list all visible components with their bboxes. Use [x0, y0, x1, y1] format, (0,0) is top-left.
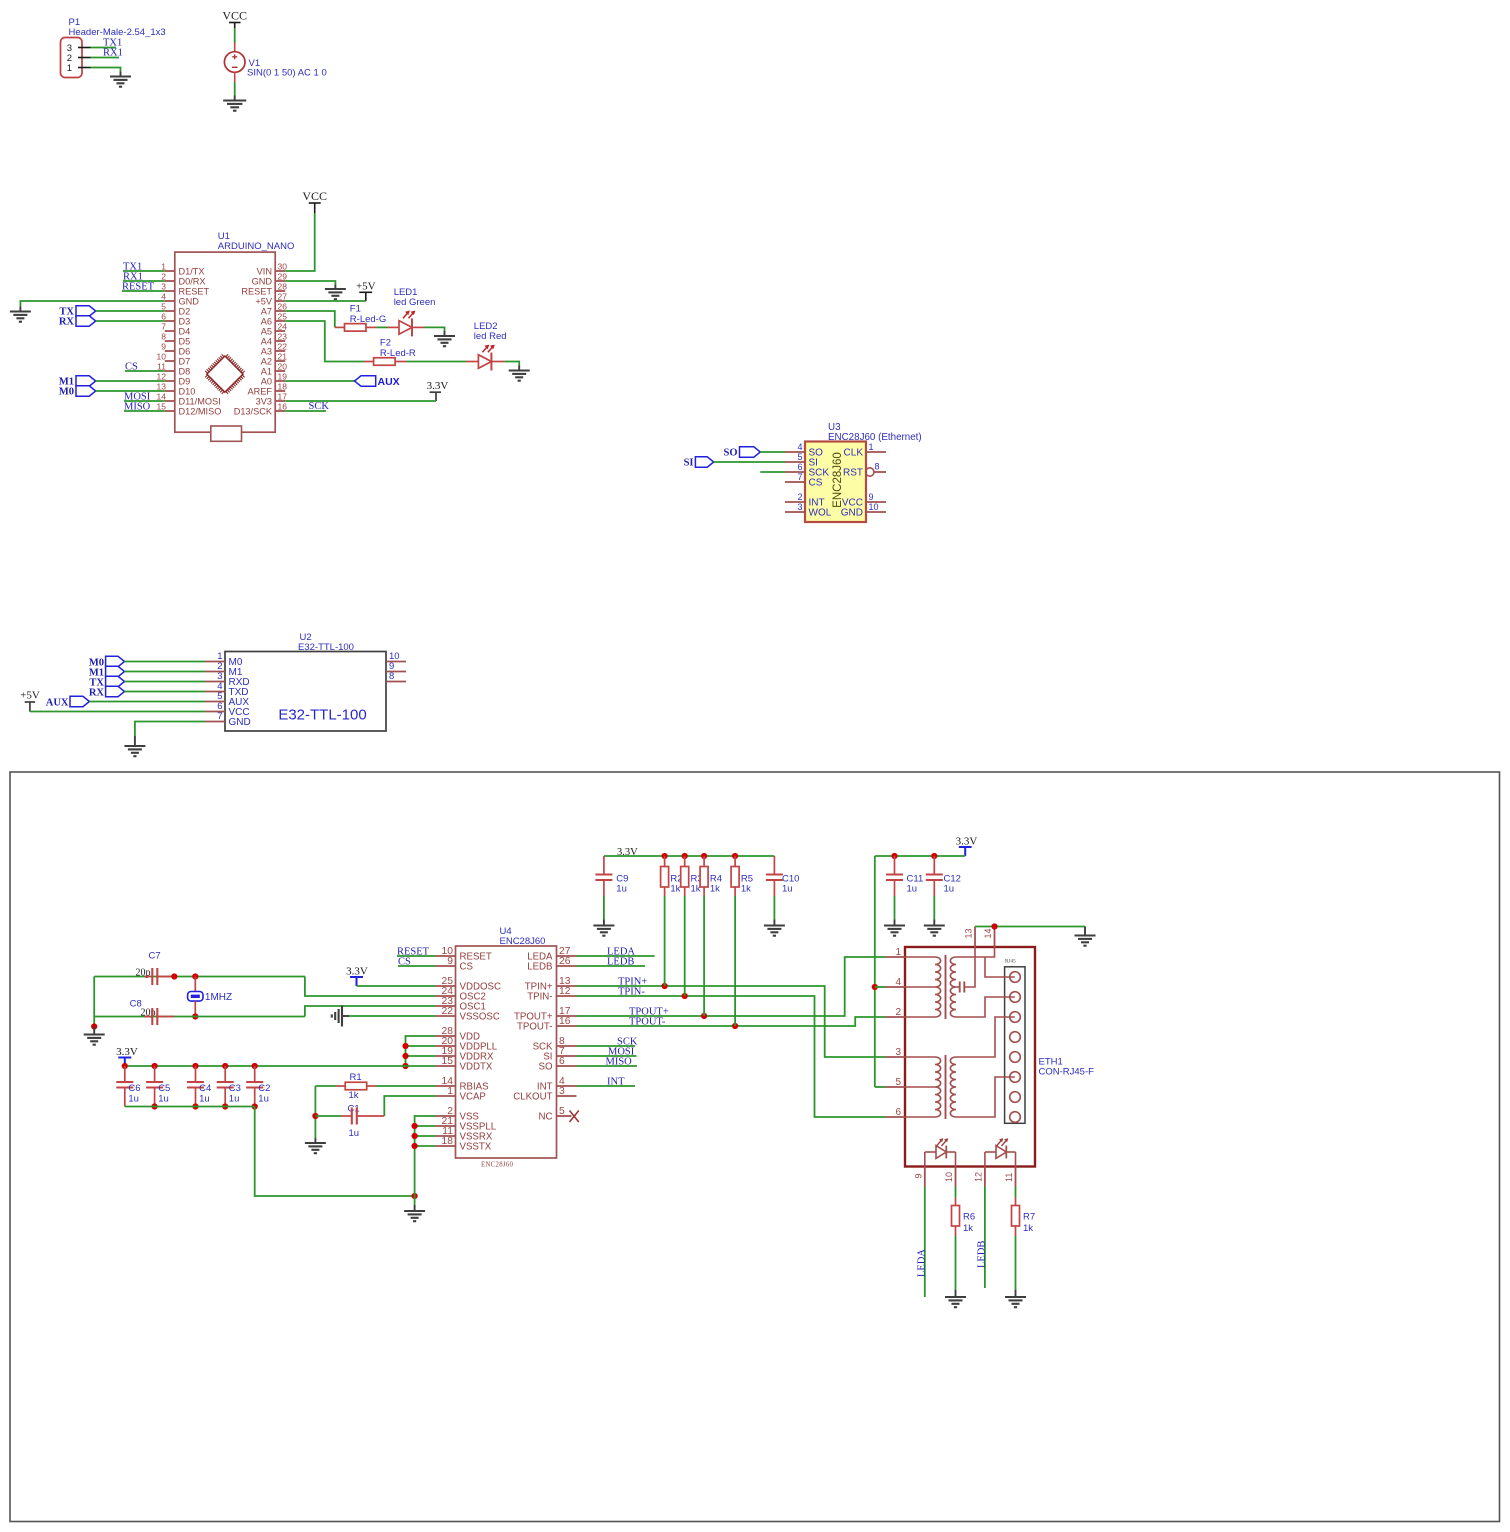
svg-text:16: 16	[278, 401, 288, 411]
U2 pin 3 RXD	[205, 681, 225, 683]
svg-text:D0/RX: D0/RX	[179, 276, 206, 286]
wire left crystal vertical	[93, 977, 95, 1027]
port AUX at U1 pin 19 A0	[285, 380, 354, 382]
U4 pin 21 VSSPLL	[436, 1125, 456, 1127]
svg-text:A3: A3	[261, 346, 272, 356]
wire TPOUT+ to transformer pin 1	[577, 957, 886, 1016]
svg-text:VCC: VCC	[222, 9, 247, 23]
svg-text:SO: SO	[723, 448, 737, 459]
wire F1 to LED1	[376, 326, 387, 328]
resistor R3 1k	[682, 853, 688, 859]
U4 pin 27 LEDA	[557, 955, 577, 957]
svg-text:RESET: RESET	[179, 286, 210, 296]
svg-text:1: 1	[447, 1086, 453, 1097]
junction	[412, 1193, 418, 1199]
U1 pin 21 A2	[275, 360, 285, 362]
svg-text:D10: D10	[179, 386, 196, 396]
U4 pin 17 TPOUT+	[557, 1015, 577, 1017]
U4 pin 9 CS	[436, 965, 456, 967]
svg-text:1k: 1k	[963, 1223, 973, 1234]
transformer T1 core	[945, 955, 947, 1019]
voltage source V1 SIN(0 1 50) AC 1 0	[234, 43, 236, 53]
junction	[701, 1013, 707, 1019]
U3 pin 8 RST with bubble	[866, 468, 874, 476]
wire +5V to U2 VCC	[30, 711, 205, 713]
svg-text:3.3V: 3.3V	[116, 1046, 138, 1058]
U3 pin 1 CLK	[866, 451, 886, 453]
junction	[412, 1133, 418, 1139]
svg-text:10: 10	[157, 351, 167, 361]
wire R2 down	[664, 896, 666, 986]
ETH1 pin 9	[924, 1167, 926, 1187]
junction	[91, 1023, 97, 1029]
svg-text:E32-TTL-100: E32-TTL-100	[278, 707, 366, 724]
svg-text:CLKOUT: CLKOUT	[513, 1092, 552, 1103]
wire U1 pin1	[123, 270, 165, 272]
wire VSSTX	[415, 1145, 436, 1147]
wire RX	[125, 691, 206, 693]
wire R7 to ground	[1015, 1236, 1017, 1290]
U4 pin 20 VDDPLL	[436, 1045, 456, 1047]
wire pin11 to R7	[1015, 1187, 1017, 1198]
ETH1 pin 1	[885, 956, 905, 958]
svg-text:8: 8	[389, 671, 394, 682]
svg-text:29: 29	[278, 271, 288, 281]
wire VDDOSC	[357, 985, 436, 987]
U1 pin 5 D2	[165, 310, 175, 312]
ground below C11	[894, 920, 896, 926]
svg-text:11: 11	[1004, 1173, 1014, 1182]
svg-text:VCAP: VCAP	[460, 1092, 486, 1103]
svg-text:2: 2	[895, 1007, 901, 1018]
svg-text:RX: RX	[59, 317, 75, 328]
wire M1	[96, 380, 165, 382]
wire VSSRX	[415, 1135, 436, 1137]
wire VSSPLL	[415, 1125, 436, 1127]
ETH1 pin 4	[885, 986, 905, 988]
wire A6 to F2	[285, 321, 364, 362]
U2 pin 5 AUX	[205, 701, 225, 703]
ground after LED2	[518, 366, 520, 371]
svg-text:A2: A2	[261, 356, 272, 366]
svg-text:+5V: +5V	[20, 690, 40, 702]
svg-text:led Green: led Green	[394, 297, 436, 308]
U4 pin 28 VDD	[436, 1035, 456, 1037]
transformer T1 secondary coil	[950, 957, 956, 1017]
U4 pin 23 OSC1	[436, 1005, 456, 1007]
junction	[312, 1113, 318, 1119]
wire 3.3V to transformer center taps	[874, 856, 876, 1087]
wire U1 pin4 GND to ground	[20, 301, 164, 307]
svg-text:22: 22	[442, 1006, 454, 1017]
wire TPIN- to transformer pin 6	[577, 996, 886, 1117]
svg-text:7: 7	[217, 711, 222, 722]
svg-text:3: 3	[797, 502, 802, 512]
wire F2 to LED2	[406, 361, 466, 363]
wire LED1 to ground	[424, 327, 445, 331]
ground at U2 GND	[134, 736, 136, 746]
U4 pin 22 VSSOSC	[436, 1015, 456, 1017]
svg-text:1k: 1k	[670, 883, 680, 894]
U2 pin 7 GND	[205, 721, 225, 723]
wire crystal top rail	[94, 976, 305, 978]
svg-text:1MHZ: 1MHZ	[205, 992, 232, 1003]
svg-text:19: 19	[278, 371, 288, 381]
resistor R2 1k	[662, 853, 668, 859]
ETH1 pin 11	[1015, 1167, 1017, 1187]
U3 pin 10 GND	[866, 511, 886, 513]
U4 pin 4 INT	[557, 1085, 577, 1087]
U4 pin 2 VSS	[436, 1115, 456, 1117]
svg-text:GND: GND	[229, 717, 251, 728]
U3 pin 3 WOL	[785, 511, 805, 513]
svg-text:C6: C6	[128, 1083, 140, 1094]
junction	[682, 993, 688, 999]
svg-text:13: 13	[157, 381, 167, 391]
svg-text:1u: 1u	[128, 1094, 139, 1105]
wire MISO	[124, 410, 165, 412]
U4 pin 10 RESET	[436, 955, 456, 957]
svg-text:SI: SI	[684, 458, 694, 469]
wire pin10 to R6	[955, 1187, 957, 1198]
wire R6 to ground	[955, 1236, 957, 1290]
wire OSC1 to crystal bottom	[305, 1006, 436, 1017]
U3 pin 9 VCC	[866, 501, 886, 503]
svg-text:14: 14	[157, 391, 167, 401]
ground after LED1	[444, 331, 446, 336]
svg-text:1u: 1u	[258, 1094, 269, 1105]
U1 USB connector rect	[211, 426, 242, 441]
transformer T2 core	[945, 1055, 947, 1119]
U4 pin 19 VDDRX	[436, 1055, 456, 1057]
svg-text:8: 8	[875, 461, 880, 471]
svg-text:ARDUINO_NANO: ARDUINO_NANO	[218, 241, 295, 252]
LED A inside ETH1	[925, 1151, 936, 1153]
U2 pin 4 TXD	[205, 691, 225, 693]
svg-text:27: 27	[278, 291, 288, 301]
svg-text:15: 15	[157, 401, 167, 411]
U1 pin 14 D11/MOSI	[165, 400, 175, 402]
wire R1 to RBIAS	[376, 1085, 436, 1087]
U1 pin 24 A5	[275, 330, 285, 332]
U1 pin 3 RESET	[165, 290, 175, 292]
wire SCK at U3	[760, 471, 785, 473]
svg-text:16: 16	[559, 1016, 571, 1027]
svg-text:3.3V: 3.3V	[427, 380, 449, 392]
svg-text:14: 14	[983, 928, 993, 938]
wire LED2 to ground	[504, 362, 519, 366]
ETH1 pin 5	[885, 1086, 905, 1088]
svg-text:F2: F2	[380, 338, 391, 349]
wire cap return to VSS ground	[255, 1107, 415, 1197]
wire SO	[577, 1065, 638, 1067]
U1 MCU diamond glyph	[205, 354, 244, 393]
U1 pin 25 A6	[275, 320, 285, 322]
U1 pin 17 3V3	[275, 400, 285, 402]
U1 pin 1 D1/TX	[165, 270, 175, 272]
wire RESET	[397, 955, 436, 957]
junction at pin 4	[872, 984, 878, 990]
resistor R6 1k	[955, 1198, 957, 1206]
svg-text:1: 1	[161, 261, 166, 271]
U1 pin 2 D0/RX	[165, 280, 175, 282]
wire LEDB	[577, 965, 646, 967]
svg-text:ENC28J60: ENC28J60	[481, 1162, 514, 1169]
ground below R1/C1	[314, 1138, 316, 1143]
junction at crystal bottom	[192, 1013, 198, 1019]
svg-text:11: 11	[157, 361, 166, 371]
svg-text:D7: D7	[179, 356, 191, 366]
svg-text:D2: D2	[179, 306, 191, 316]
wire TPIN+ to transformer pin 3	[577, 986, 886, 1057]
svg-text:VSSOSC: VSSOSC	[460, 1012, 500, 1023]
RJ45 contact 3	[1010, 1012, 1021, 1023]
ETH1 pin 13	[974, 927, 976, 948]
transformer T1 primary coil	[905, 956, 935, 958]
svg-text:1k: 1k	[1023, 1223, 1033, 1234]
svg-text:+5V: +5V	[356, 281, 376, 293]
U2 pin 10	[386, 661, 406, 663]
ground below V1	[234, 96, 236, 101]
RJ45 contact 8	[1010, 1112, 1021, 1123]
svg-text:1k: 1k	[691, 883, 701, 894]
U1 pin 20 A1	[275, 370, 285, 372]
junction	[171, 973, 177, 979]
svg-text:6: 6	[161, 311, 166, 321]
capacitor C6 1u	[124, 1066, 126, 1082]
svg-text:6: 6	[895, 1107, 901, 1118]
ground below C10	[773, 920, 775, 926]
svg-text:C2: C2	[258, 1083, 270, 1094]
svg-text:1u: 1u	[229, 1094, 240, 1105]
U4 pin 24 OSC2	[436, 995, 456, 997]
svg-text:1k: 1k	[710, 883, 720, 894]
svg-text:VSSTX: VSSTX	[460, 1142, 492, 1153]
wire U1 pin3	[122, 290, 165, 292]
wire V1 to ground	[234, 82, 236, 96]
resistor R4 1k	[701, 853, 707, 859]
svg-text:+5V: +5V	[255, 296, 272, 306]
U4 pin 8 SCK	[557, 1045, 577, 1047]
wire VDDPLL	[406, 1045, 436, 1047]
T2 secondary top to RJ45 pin3	[956, 1017, 1015, 1057]
wire R1 left vertical	[314, 1086, 316, 1138]
wire pins 13/14 to ground	[975, 926, 1085, 928]
svg-text:15: 15	[442, 1056, 454, 1067]
U1 pin 4 GND	[165, 300, 175, 302]
RJ45 contact 1	[1010, 972, 1021, 983]
svg-text:A1: A1	[261, 366, 272, 376]
ground at P1 pin 1	[120, 72, 122, 77]
svg-text:D6: D6	[179, 346, 191, 356]
svg-text:1: 1	[869, 442, 874, 452]
wire right 3.3V rail	[875, 855, 965, 857]
svg-text:C5: C5	[158, 1083, 170, 1094]
U3 pin 5 SI	[785, 461, 805, 463]
U4 pin 26 LEDB	[557, 965, 577, 967]
svg-text:1u: 1u	[158, 1094, 169, 1105]
U2 pin 1 M0	[205, 661, 225, 663]
T1 center-tap capacitor to pin 13	[956, 986, 960, 988]
capacitor C12 1u	[931, 853, 937, 859]
svg-text:9: 9	[869, 492, 874, 502]
svg-text:C3: C3	[229, 1083, 241, 1094]
svg-text:26: 26	[278, 301, 288, 311]
U1 pin 23 A4	[275, 340, 285, 342]
svg-text:1u: 1u	[944, 883, 955, 894]
svg-text:4: 4	[895, 977, 901, 988]
svg-text:Header-Male-2.54_1x3: Header-Male-2.54_1x3	[69, 27, 166, 38]
svg-text:24: 24	[278, 321, 288, 331]
wire RX1 from P1 pin 2	[91, 57, 120, 59]
svg-text:RX: RX	[89, 688, 105, 699]
wire SCK pin16	[285, 410, 326, 412]
capacitor C2 1u	[252, 1063, 258, 1069]
ground below C12	[933, 920, 935, 926]
svg-text:M0: M0	[59, 387, 74, 398]
svg-text:NC: NC	[539, 1112, 553, 1123]
T1 secondary top lead to pin 14 and RJ45 pin1	[956, 947, 995, 957]
ground below R6	[955, 1290, 957, 1297]
wire OSC2 to crystal top	[305, 977, 436, 997]
svg-text:3.3V: 3.3V	[346, 966, 368, 978]
svg-text:LEDA: LEDA	[917, 1249, 928, 1277]
ETH1 pin 14	[994, 927, 996, 948]
wire 3.3V cap rail to VDDTX	[125, 1065, 436, 1067]
svg-text:4: 4	[161, 291, 166, 301]
svg-text:26: 26	[559, 956, 571, 967]
svg-text:A7: A7	[261, 306, 272, 316]
U1 pin 30 VIN	[275, 270, 285, 272]
svg-text:10: 10	[944, 1172, 954, 1182]
U2 pin 2 M1	[205, 671, 225, 673]
wire TX	[96, 310, 165, 312]
svg-text:ENC28J60: ENC28J60	[500, 936, 546, 947]
ground below R7	[1015, 1290, 1017, 1297]
junction	[402, 1043, 408, 1049]
svg-text:12: 12	[559, 986, 571, 997]
svg-text:led Red: led Red	[474, 331, 507, 342]
svg-text:CS: CS	[809, 478, 823, 489]
RJ45 contact 6	[1010, 1072, 1021, 1083]
U4 pin 11 VSSRX	[436, 1135, 456, 1137]
U4 pin 5 NC with no-connect cross	[557, 1115, 572, 1117]
ETH1 pin 12	[984, 1167, 986, 1187]
U1 pin 16 D13/SCK	[275, 410, 285, 412]
svg-text:6: 6	[559, 1056, 565, 1067]
ground at U1 GND	[19, 307, 21, 312]
wire to ETH1 pin 4	[875, 986, 885, 988]
svg-text:A6: A6	[261, 316, 272, 326]
svg-text:TPOUT-: TPOUT-	[517, 1022, 553, 1033]
wire U1 GND pin29 to ground	[285, 281, 335, 285]
U4 pin 18 VSSTX	[436, 1145, 456, 1147]
svg-text:CS: CS	[460, 962, 474, 973]
junction	[402, 1063, 408, 1069]
svg-text:12: 12	[974, 1172, 984, 1182]
svg-text:1k: 1k	[349, 1090, 359, 1101]
wire +5V pin27	[285, 300, 366, 302]
svg-text:C4: C4	[199, 1083, 211, 1094]
junction	[991, 923, 997, 929]
wire AUX	[89, 701, 205, 703]
svg-text:A5: A5	[261, 326, 272, 336]
resistor R7 1k	[1015, 1198, 1017, 1206]
U2 pin 8	[386, 681, 406, 683]
svg-text:WOL: WOL	[809, 508, 832, 519]
svg-text:D3: D3	[179, 316, 191, 326]
ground below C9	[603, 920, 605, 926]
wire M1	[125, 671, 206, 673]
svg-text:TPIN-: TPIN-	[527, 992, 552, 1003]
U1 pin 19 A0	[275, 380, 285, 382]
svg-text:SIN(0 1 50) AC 1 0: SIN(0 1 50) AC 1 0	[247, 68, 327, 79]
U4 pin 13 TPIN+	[557, 985, 577, 987]
U1 pin 7 D4	[165, 330, 175, 332]
ground at ETH1 shield	[1084, 927, 1086, 936]
wire INT	[577, 1085, 636, 1087]
wire CS	[398, 965, 436, 967]
svg-text:5: 5	[797, 452, 802, 462]
U4 pin 3 CLKOUT	[557, 1095, 577, 1097]
wire R3 down	[684, 896, 686, 996]
ground at U1 pin 29	[334, 285, 336, 290]
wire U1 pin2	[123, 280, 165, 282]
svg-text:CLK: CLK	[844, 448, 864, 459]
wire A7 to F1	[285, 311, 335, 327]
U1 pin 27 +5V	[275, 300, 285, 302]
wire to ETH1 pin 5	[875, 1086, 885, 1088]
U1 pin 28 RESET	[275, 290, 285, 292]
svg-text:D11/MOSI: D11/MOSI	[179, 396, 221, 406]
svg-text:3: 3	[161, 281, 166, 291]
resistor R5 1k	[732, 853, 738, 859]
transformer T2 primary coil	[905, 1056, 935, 1058]
svg-text:1u: 1u	[782, 883, 793, 894]
U1 pin 18 AREF	[275, 390, 285, 392]
wire M0	[125, 661, 206, 663]
U1 pin 9 D6	[165, 350, 175, 352]
crystal X1 1MHZ	[194, 977, 196, 992]
svg-text:5: 5	[559, 1106, 565, 1117]
U1 pin 15 D12/MISO	[165, 410, 175, 412]
svg-text:D8: D8	[179, 366, 191, 376]
wire VSSOSC to side ground	[349, 1015, 436, 1017]
wire SO	[760, 451, 785, 453]
U1 pin 13 D10	[165, 390, 175, 392]
junction	[122, 1063, 128, 1069]
wire VCC to V1	[234, 28, 236, 43]
svg-text:10: 10	[869, 502, 879, 512]
wire CS	[125, 370, 165, 372]
wire SI	[714, 461, 785, 463]
U1 pin 29 GND	[275, 280, 285, 282]
U2 pin 6 VCC	[205, 711, 225, 713]
wire U2 GND to ground	[135, 722, 205, 737]
junction	[412, 1143, 418, 1149]
ETH1 pin 3	[885, 1056, 905, 1058]
svg-text:6: 6	[797, 462, 802, 472]
svg-text:1k: 1k	[741, 883, 751, 894]
junction	[732, 1023, 738, 1029]
svg-text:D5: D5	[179, 336, 191, 346]
transformer T2 secondary coil	[950, 1057, 956, 1117]
svg-text:GND: GND	[841, 508, 863, 519]
wire LEDA	[577, 955, 655, 957]
svg-text:RJ45: RJ45	[1005, 959, 1016, 965]
T1 secondary bottom to RJ45 pin2	[956, 997, 1015, 1017]
U4 pin 12 TPIN-	[557, 995, 577, 997]
